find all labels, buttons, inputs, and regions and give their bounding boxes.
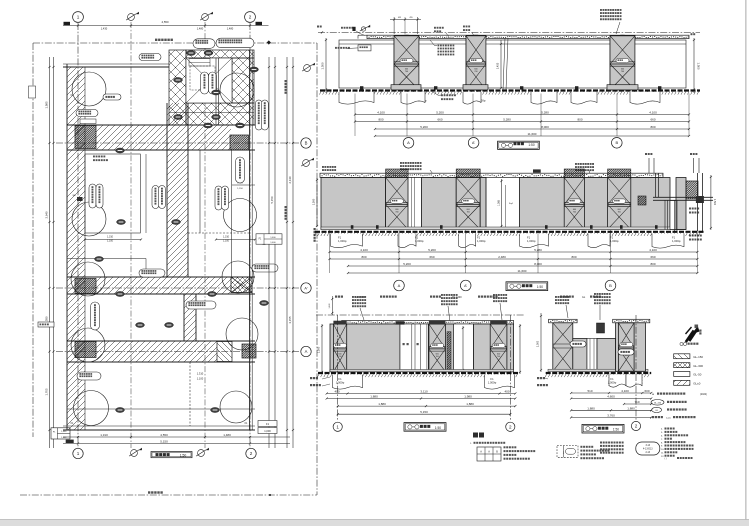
section2 porch beam — [653, 196, 713, 198]
section2 footing pad strip — [321, 227, 686, 230]
svg-text:1,310: 1,310 — [100, 433, 108, 437]
left dimension chain — [49, 57, 51, 448]
stair dashed inner rect — [190, 66, 215, 90]
svg-text:1,455: 1,455 — [496, 62, 500, 69]
section3 title — [404, 423, 446, 432]
foundation beam band A-prime — [67, 276, 255, 278]
section2 column2 cap (dense) — [456, 169, 480, 178]
section3 dotted strip — [447, 332, 451, 372]
section2 drain dark block — [638, 196, 646, 205]
svg-text:GL-150: GL-150 — [654, 402, 662, 404]
section1 1FL chain line — [318, 31, 700, 33]
footing circle top-left F1 — [72, 72, 106, 106]
svg-text:660: 660 — [437, 118, 442, 122]
svg-text:5,200: 5,200 — [428, 248, 436, 252]
svg-text:700: 700 — [467, 212, 470, 214]
section4 piles — [609, 375, 626, 388]
svg-text:1:50: 1:50 — [180, 454, 187, 458]
section1 column top anchors — [404, 35, 408, 38]
band A-prime cross block east — [231, 277, 252, 293]
boundary intersection dot — [267, 40, 271, 44]
section2 door gap — [485, 178, 487, 230]
svg-text:1,000φ: 1,000φ — [672, 239, 681, 243]
section1 inspection box — [358, 45, 371, 51]
bottom F1 boxes right — [258, 421, 277, 427]
north arrow symbol — [687, 330, 698, 342]
svg-text:600: 600 — [573, 209, 576, 211]
svg-text:3,640: 3,640 — [45, 211, 49, 218]
svg-text:700: 700 — [405, 71, 408, 73]
section3 ground line — [318, 372, 519, 374]
svg-text:800: 800 — [378, 118, 383, 122]
svg-text:4,550: 4,550 — [160, 433, 168, 437]
bottom notes left column — [600, 442, 624, 444]
svg-text:2: 2 — [249, 15, 252, 20]
entrance wall line — [215, 58, 217, 125]
section2 title — [506, 282, 548, 291]
svg-text:700: 700 — [474, 71, 477, 73]
svg-text:1,310: 1,310 — [197, 372, 204, 376]
grid bubble A-prime section1 — [468, 138, 479, 149]
section2 stair strip — [408, 178, 422, 230]
section1 GL leader notes — [441, 94, 456, 96]
svg-text:F1: F1 — [338, 236, 342, 240]
legend level note — [652, 416, 663, 418]
svg-text:GL±0: GL±0 — [693, 382, 700, 386]
section3 left leader notes — [310, 377, 318, 379]
svg-text:510: 510 — [587, 389, 592, 393]
svg-text:600: 600 — [497, 353, 500, 355]
svg-text:A: A — [305, 349, 308, 354]
small oval markers — [95, 257, 104, 262]
section1 title — [498, 141, 540, 149]
band A-prime end block west — [75, 279, 96, 294]
section flag 4 bottom — [198, 450, 205, 457]
section1 porch step left — [344, 43, 355, 45]
legend swatch GL-300 — [674, 363, 690, 368]
section2 braced column 2 — [456, 178, 480, 230]
section2 braced column 4 — [608, 178, 631, 230]
svg-text:1,880: 1,880 — [466, 402, 474, 406]
section2 column4 cap (dense) — [608, 169, 631, 178]
svg-text:F1: F1 — [527, 236, 531, 240]
svg-text:600: 600 — [436, 353, 439, 355]
svg-text:1,400: 1,400 — [270, 242, 276, 244]
section flag right top — [304, 65, 311, 72]
grid chain section4 — [635, 315, 637, 421]
svg-text:1,310: 1,310 — [107, 236, 114, 239]
section2 bottom notes — [335, 296, 343, 298]
svg-text:660: 660 — [650, 118, 655, 122]
svg-text:1,100: 1,100 — [223, 240, 230, 243]
svg-text:5,200: 5,200 — [403, 262, 411, 266]
section1 labels above col2 — [463, 26, 470, 28]
svg-text:1:50: 1:50 — [528, 143, 534, 147]
svg-text:1,880: 1,880 — [587, 406, 595, 410]
svg-text:F1: F1 — [477, 236, 481, 240]
svg-text:1,100: 1,100 — [107, 240, 114, 243]
svg-text:5,150: 5,150 — [420, 410, 428, 414]
section cut line 7 — [130, 22, 132, 448]
beam band B hatch — [96, 126, 231, 150]
section1 vertical dim left — [325, 38, 327, 93]
section1 wall panel 1 — [339, 40, 394, 88]
hanrei box2 notes — [580, 446, 593, 448]
svg-text:3-13: 3-13 — [645, 445, 650, 447]
boundary marker box left — [29, 86, 36, 98]
svg-text:1,480: 1,480 — [197, 26, 204, 30]
section2 porch dense block — [686, 181, 698, 199]
svg-text:4,100: 4,100 — [621, 389, 629, 393]
section2 braced column 1 — [386, 178, 409, 230]
stair capsules — [201, 72, 209, 94]
section4 left leader notes — [537, 377, 545, 379]
footing circle band3 east — [226, 318, 258, 350]
section1 wall panel 4 — [635, 40, 686, 88]
svg-text:4,100: 4,100 — [649, 111, 657, 115]
building outer wall east — [249, 50, 251, 430]
grid line A-prime horizontal — [56, 287, 301, 289]
section flag 4 top — [202, 14, 209, 21]
grid bubble A section1 — [403, 138, 414, 149]
foundation beam band B upper edge — [67, 124, 255, 126]
svg-text:1,500: 1,500 — [697, 63, 701, 70]
section4 title — [582, 424, 624, 433]
section1 ground line — [320, 89, 700, 91]
section4 gray low wall left — [573, 339, 587, 372]
grid bubble 1 section3 — [333, 422, 342, 431]
stair dashed label box — [189, 59, 210, 66]
section2 column1 cap (dense) — [386, 169, 409, 178]
svg-text:A': A' — [304, 286, 308, 290]
svg-text:1:50: 1:50 — [537, 285, 543, 289]
section1 callout mid — [434, 27, 444, 29]
svg-text:2: 2 — [250, 451, 253, 456]
svg-text:1,000φ: 1,000φ — [415, 239, 424, 243]
svg-text:660: 660 — [650, 255, 655, 259]
svg-text:1:50: 1:50 — [613, 428, 619, 432]
svg-text:1,150: 1,150 — [237, 188, 243, 190]
section2 column3 cap (dense) — [564, 169, 584, 178]
section3 braced column 1 — [333, 324, 346, 372]
section1 piles — [339, 92, 374, 104]
section3 right vertical dim — [519, 324, 521, 374]
section3 gray wall 1 — [330, 324, 400, 372]
svg-text:700: 700 — [573, 212, 576, 214]
svg-text:1,500: 1,500 — [537, 340, 540, 347]
grid line 2 vertical — [249, 23, 251, 448]
svg-text:1,310: 1,310 — [223, 236, 230, 239]
section2 gray wall 2b — [480, 178, 486, 230]
footing circle bottom-left — [74, 391, 109, 426]
svg-text:700: 700 — [338, 356, 341, 358]
section3 piles — [333, 375, 363, 390]
svg-text:800: 800 — [577, 118, 582, 122]
hanrei diagram box 1 — [477, 447, 501, 461]
grid line B horizontal — [56, 142, 301, 144]
page edge bottom strip — [0, 520, 749, 526]
svg-text:5,150: 5,150 — [160, 440, 168, 444]
svg-text:1,440: 1,440 — [329, 303, 331, 309]
svg-text:1,880: 1,880 — [378, 402, 386, 406]
svg-text:700: 700 — [497, 356, 500, 358]
section flag right 1 — [303, 160, 310, 167]
svg-text:1,880: 1,880 — [627, 406, 635, 410]
svg-text:1,705: 1,705 — [45, 388, 49, 395]
section4 mid labels — [570, 341, 586, 347]
section4 dim rows — [571, 392, 651, 394]
section4 stair strip — [587, 339, 597, 372]
section34 middle vertical dim — [540, 313, 542, 372]
svg-text:700: 700 — [395, 212, 398, 214]
grid bubble 1 top — [73, 12, 84, 23]
entrance porch crosshatch top strip — [186, 50, 254, 58]
grid bubble B right — [301, 138, 311, 148]
section3 braced column 2 — [429, 324, 446, 372]
section4 gray pier right — [616, 323, 646, 372]
svg-text:1,000φ: 1,000φ — [610, 239, 619, 243]
svg-text:A: A — [407, 140, 410, 145]
site boundary line east — [316, 43, 318, 495]
svg-text:600: 600 — [621, 69, 624, 71]
section3 callouts above — [352, 296, 366, 298]
footing circle band2 west — [71, 262, 105, 296]
section3 left vertical dim — [321, 324, 323, 374]
building outer wall west (hatched strip) — [67, 67, 85, 430]
grid bubble A section2 — [394, 280, 405, 291]
svg-text:2: 2 — [635, 424, 638, 429]
section4 stair dashed lines below — [608, 374, 610, 386]
svg-text:1: 1 — [336, 425, 339, 430]
room top-left interior — [77, 124, 169, 126]
beam band B end block west (dense) — [75, 126, 96, 149]
svg-text:1:50: 1:50 — [435, 426, 441, 430]
section4 ground line — [546, 372, 652, 374]
footing circle mid-left — [72, 202, 106, 236]
svg-text:600: 600 — [474, 69, 477, 71]
legend ellipse marker 2 — [652, 407, 662, 412]
svg-text:1,000φ: 1,000φ — [477, 239, 486, 243]
lower central wall strip — [184, 294, 196, 341]
svg-text:1: 1 — [77, 15, 80, 20]
section1 callout under-slab right — [438, 45, 455, 47]
svg-text:400: 400 — [504, 390, 509, 394]
section2 ground line — [315, 231, 704, 233]
section2 right vertical dim — [710, 175, 712, 230]
svg-text:( ): ( ) — [665, 458, 667, 460]
bottom rooms divider — [189, 362, 191, 426]
svg-text:1,365: 1,365 — [497, 199, 500, 206]
svg-text:1,500: 1,500 — [312, 198, 316, 205]
section3 footing pad strip — [330, 370, 514, 372]
svg-text:11.: 11. — [661, 453, 664, 455]
north arrow caption — [680, 342, 683, 345]
section1 callout right (above col3) — [600, 9, 622, 11]
entrance crosshatch lower strip — [186, 103, 254, 125]
svg-text:8,000: 8,000 — [541, 125, 549, 129]
entrance crosshatch right block — [232, 58, 254, 103]
section3 col3 cap — [490, 321, 507, 325]
svg-text:F1: F1 — [672, 236, 676, 240]
svg-text:A: A — [398, 283, 401, 288]
svg-text:B: B — [305, 141, 308, 146]
section2 fence posts above — [648, 158, 650, 173]
svg-text:3,760: 3,760 — [607, 413, 615, 417]
svg-text:1,480: 1,480 — [223, 433, 231, 437]
section1 dims above column1 — [393, 17, 395, 34]
svg-text:1,430: 1,430 — [101, 26, 108, 30]
hanrei diagram box 2 (dashed) — [557, 446, 578, 458]
grid bubble 2 bottom — [246, 448, 256, 458]
svg-text:1,500: 1,500 — [713, 199, 716, 206]
svg-text:800: 800 — [361, 255, 366, 259]
section4 slab caps — [549, 319, 578, 323]
svg-text:B: B — [615, 140, 618, 145]
grid bubble A-prime right — [301, 283, 311, 293]
band A cross triangle block — [217, 342, 232, 362]
foundation beam band A — [67, 340, 255, 342]
site boundary line west — [32, 43, 34, 437]
corridor line — [145, 154, 147, 233]
svg-text:1,000φ: 1,000φ — [527, 239, 536, 243]
section3 braced column 3 — [490, 324, 507, 372]
bottom dimension rows plan — [63, 436, 290, 438]
section2 left vertical dim — [316, 178, 318, 226]
svg-text:4,100: 4,100 — [360, 248, 368, 252]
plan capsule labels — [89, 184, 96, 208]
section1 braced column 3 — [610, 36, 635, 90]
section1 vertical dim right — [693, 38, 695, 93]
section4 callouts above — [555, 296, 569, 298]
svg-text:11,600: 11,600 — [518, 269, 527, 273]
footing circle mid-right — [224, 199, 257, 232]
svg-text:660: 660 — [429, 255, 434, 259]
svg-text:B: B — [609, 283, 612, 288]
svg-text:5,150: 5,150 — [270, 196, 274, 203]
svg-text:1,000φ: 1,000φ — [336, 380, 345, 384]
section2 braced column 3 — [564, 178, 584, 230]
svg-text:5,200: 5,200 — [436, 111, 444, 115]
hanrei header — [473, 433, 484, 438]
section4 gray low wall right — [597, 339, 616, 372]
svg-text:800: 800 — [650, 125, 655, 129]
legend ellipse marker 1 — [651, 400, 664, 406]
hanrei box1 notes — [504, 446, 517, 448]
plan title — [151, 452, 192, 458]
section3 top chain line — [316, 314, 524, 316]
top dimension line — [63, 25, 269, 27]
grid bubble A-prime section2 — [460, 280, 471, 291]
svg-text:1,000φ: 1,000φ — [488, 380, 497, 384]
svg-text:1,985: 1,985 — [45, 101, 49, 108]
svg-text:1,400: 1,400 — [270, 237, 276, 239]
svg-text:700: 700 — [621, 71, 624, 73]
section2 door strip right — [670, 201, 676, 230]
svg-text:600: 600 — [338, 353, 341, 355]
svg-text:GL-300: GL-300 — [693, 364, 703, 368]
svg-text:F1: F1 — [338, 377, 342, 381]
svg-text:1,980: 1,980 — [464, 395, 472, 399]
svg-text:F1: F1 — [490, 377, 494, 381]
svg-text:1,000: 1,000 — [264, 429, 271, 433]
section2 wide pile right — [652, 234, 684, 249]
grid bubble B section2 — [605, 280, 616, 291]
section4 dark post block — [597, 323, 605, 333]
room mid-left rect — [85, 154, 140, 233]
road boundary line south — [20, 494, 317, 496]
grid line 1 vertical — [77, 23, 79, 448]
section1 dim rows — [355, 114, 689, 116]
section4 footing pad strip — [548, 369, 648, 371]
porch edge line — [169, 112, 254, 114]
entrance porch crosshatch left strip — [169, 50, 186, 125]
section3 dim rows — [327, 393, 516, 395]
section2 dim rows — [330, 251, 698, 253]
section3 gray wall 2 — [429, 324, 454, 372]
section flag 7 top — [128, 14, 135, 21]
svg-text:4,100: 4,100 — [649, 248, 657, 252]
svg-text:GL-50: GL-50 — [693, 373, 701, 377]
section3 col2 cap — [429, 321, 446, 325]
rebar capsule label — [636, 442, 660, 455]
inner wall line east mid — [231, 150, 233, 277]
foundation beam band B lower edge — [67, 149, 255, 151]
svg-text:700: 700 — [436, 356, 439, 358]
site boundary line north (dash-dot) — [33, 42, 317, 44]
section1 braced column 2 — [466, 36, 486, 90]
legend swatch GL+-0 — [674, 380, 690, 385]
svg-text:10.: 10. — [661, 449, 664, 451]
svg-text:GL-150: GL-150 — [693, 355, 703, 359]
grid bubble B section1 — [612, 138, 623, 149]
svg-text:5,280: 5,280 — [503, 118, 511, 122]
svg-text:3,110: 3,110 — [420, 390, 428, 394]
svg-text:800: 800 — [650, 262, 655, 266]
section1 wall panel 2 — [419, 40, 466, 88]
svg-text:4,100: 4,100 — [377, 111, 385, 115]
svg-text:1,880: 1,880 — [370, 395, 378, 399]
section1 braced column 1 — [394, 36, 419, 90]
svg-text:4-13-D13: 4-13-D13 — [643, 449, 653, 451]
section4 braced column right — [618, 323, 634, 372]
section1 FL tick left — [321, 31, 323, 33]
section2 right leader texts — [689, 208, 699, 210]
svg-text:1,500: 1,500 — [317, 346, 321, 353]
svg-text:1,500: 1,500 — [321, 62, 325, 69]
header capsule labels top — [193, 39, 215, 49]
svg-text:600: 600 — [467, 209, 470, 211]
svg-text:F1: F1 — [610, 377, 614, 381]
svg-text:1: 1 — [77, 451, 80, 456]
svg-text:1,400: 1,400 — [61, 431, 67, 433]
section3 white gap 2 — [454, 324, 474, 372]
svg-text:(2022): (2022) — [700, 393, 707, 396]
svg-text:1,000φ: 1,000φ — [338, 239, 347, 243]
footing circle top-right F1 — [220, 73, 254, 107]
band A end block east — [242, 344, 256, 358]
section1 pier dots — [360, 86, 363, 89]
svg-text:710: 710 — [634, 400, 639, 404]
legend swatch GL-150 — [674, 354, 690, 359]
right side dimension chains — [268, 57, 270, 448]
left margin small labels — [38, 322, 54, 327]
section2 porch posts — [655, 173, 657, 197]
section2 gray wall 3b — [676, 178, 686, 230]
section2 gray wall 2 — [422, 178, 457, 230]
svg-text:400: 400 — [334, 390, 339, 394]
boundary rotated note — [285, 80, 287, 94]
wall leader note — [93, 156, 105, 158]
